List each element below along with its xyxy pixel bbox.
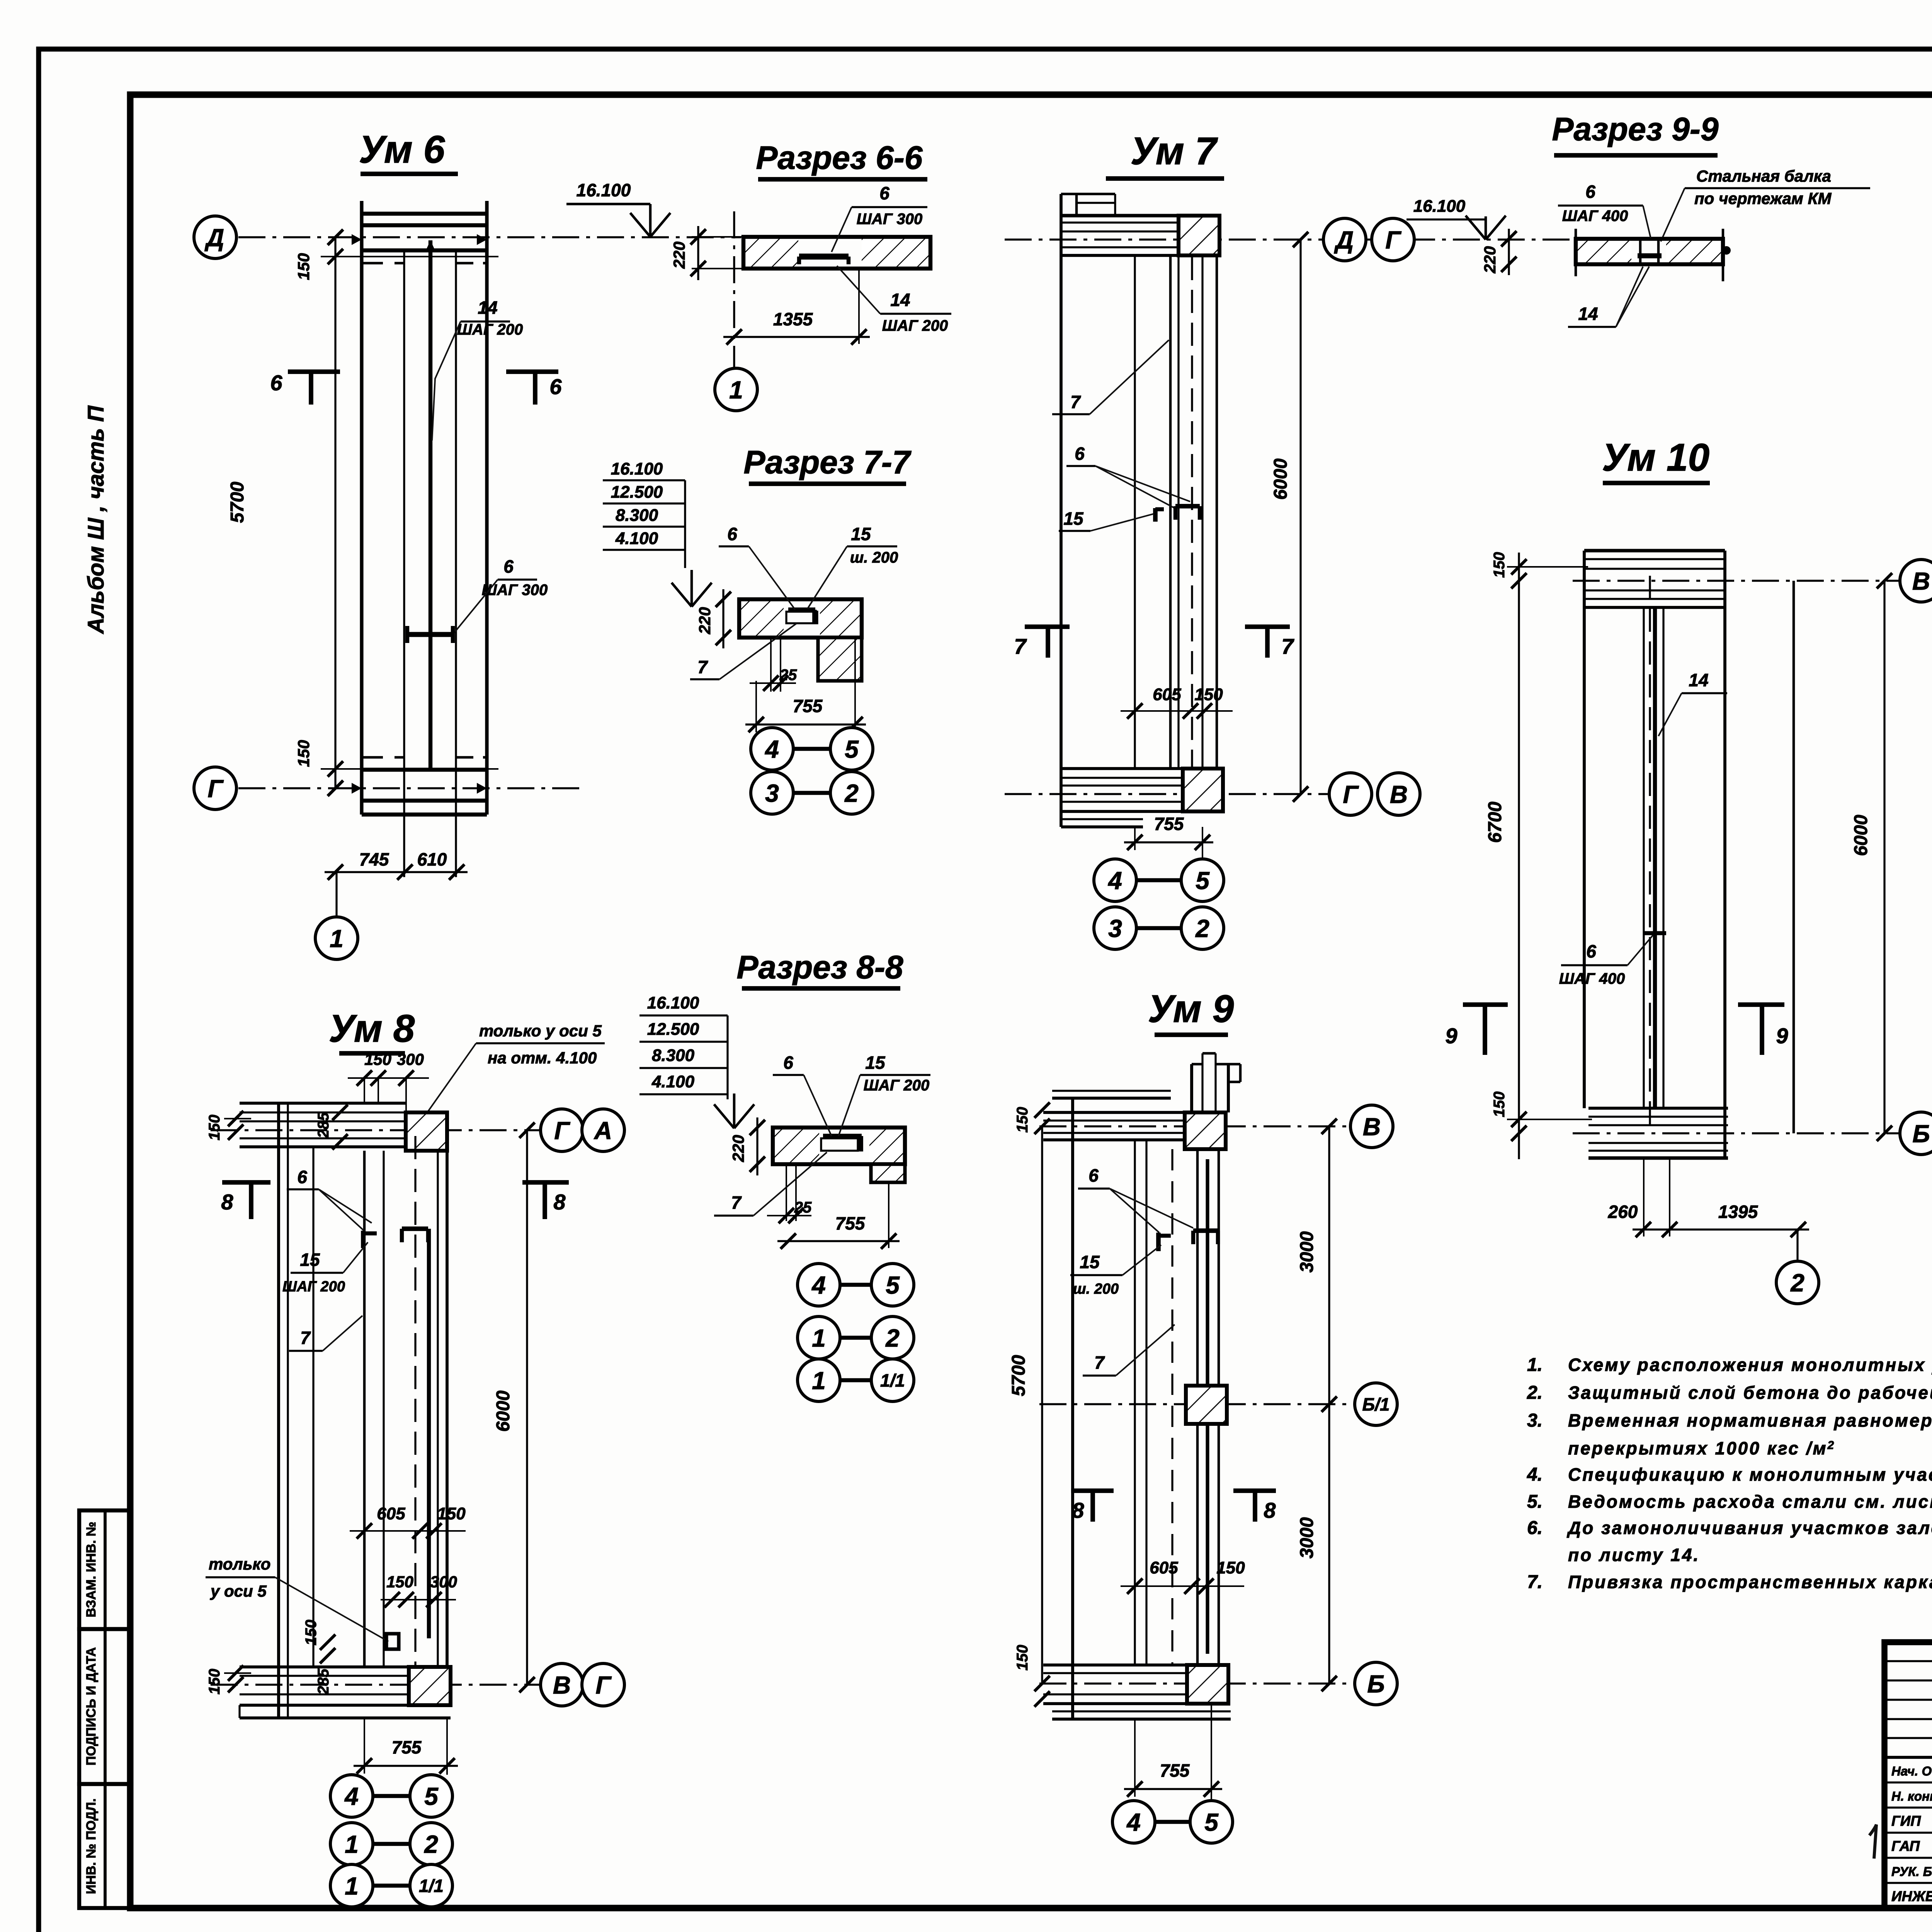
svg-text:6: 6 [503,556,514,577]
svg-text:6700: 6700 [1485,801,1505,843]
axis line Б of Ум 9 [1039,1682,1354,1684]
Ум 7 column strip edges [1169,255,1172,769]
axis circles В Г of Ум 8 [541,1663,583,1706]
dimension 1355 of Разрез 6-6 [858,269,860,344]
svg-text:7: 7 [1281,634,1294,658]
svg-text:150: 150 [294,740,313,767]
svg-text:6: 6 [783,1053,793,1073]
svg-text:ШАГ 200: ШАГ 200 [282,1279,345,1295]
svg-text:2: 2 [1790,1269,1804,1297]
svg-text:610: 610 [417,849,447,869]
Ум 6 bottom cap lines [362,756,404,759]
Ум 6 column right edge [485,201,488,815]
thickness dimension 220 of Разрез 6-6 [692,236,743,238]
axis circle Д [194,216,236,259]
svg-text:Б/1: Б/1 [1362,1395,1390,1415]
handwritten figure 1 left of title block [1869,1825,1876,1859]
svg-text:6: 6 [549,374,562,399]
svg-text:Альбом Ш , часть П: Альбом Ш , часть П [83,405,109,634]
bottom dimension 755 of Ум 9 [1134,1719,1136,1797]
thickness dimension 220 of Разрез 7-7 [722,589,724,648]
svg-text:3: 3 [1108,915,1122,942]
svg-text:5: 5 [886,1271,900,1299]
Ум 9 top column stub [1190,1064,1193,1112]
Ум 8 center dash line [414,1136,416,1677]
svg-text:6000: 6000 [1270,458,1291,500]
svg-text:4.100: 4.100 [615,529,658,548]
svg-text:4: 4 [344,1782,359,1810]
svg-text:605: 605 [1150,1558,1178,1577]
svg-text:Стальная балка: Стальная балка [1696,167,1831,185]
svg-text:755: 755 [835,1213,866,1233]
svg-text:Г: Г [1343,781,1359,808]
svg-text:285: 285 [315,1112,332,1138]
Ум 9 top hatched square [1185,1112,1226,1149]
slab of Разрез 8-8 [773,1129,819,1163]
svg-text:150: 150 [303,1620,320,1646]
detail circles 4-5 3-2 of Ум 7 [1202,842,1203,859]
left dimension 6700 of Ум 10 [1518,553,1520,1159]
svg-text:Разрез 8-8: Разрез 8-8 [736,949,903,985]
axis line Б of Ум 10 [1573,1132,1899,1134]
Ум 9 top band lines [1052,1090,1171,1092]
svg-text:Г: Г [1385,226,1401,254]
svg-text:ш. 200: ш. 200 [1073,1281,1119,1297]
section mark 8-8 left of Ум 9 [1071,1488,1114,1493]
bottom dimension 260 1395 of Ум 10 [1643,1158,1645,1236]
svg-text:15: 15 [1080,1252,1100,1272]
Ум 8 column verticals [363,1151,366,1667]
section mark 7-7 right [1245,624,1290,629]
Ум 9 wall left vertical [1071,1098,1074,1718]
svg-text:755: 755 [793,696,823,716]
svg-text:1: 1 [330,925,344,952]
svg-text:300: 300 [430,1573,457,1591]
section mark 6-6 right [506,369,558,374]
section mark 6-6 left [288,369,340,374]
detail circles of Ум 8 [446,1766,448,1775]
svg-text:16.100: 16.100 [647,993,699,1012]
svg-text:Защитный слой бетона до ра: Защитный слой бетона до рабочей арматуры… [1568,1383,1932,1403]
svg-text:16.100: 16.100 [1413,197,1466,216]
svg-text:6: 6 [879,183,889,203]
svg-text:В: В [1363,1113,1381,1141]
axis circle Г [194,767,236,810]
svg-text:755: 755 [1160,1760,1190,1781]
svg-text:755: 755 [1154,814,1184,834]
svg-text:Ум 6: Ум 6 [359,128,446,171]
bottom dimension 755 of Ум 8 [364,1718,365,1774]
svg-text:2.: 2. [1527,1383,1543,1403]
svg-text:Ум 8: Ум 8 [329,1007,415,1050]
axis circles Г А of Ум 8 [541,1109,583,1151]
detail circles 4 5 of Ум 9 [1211,1789,1212,1801]
bottom dimension 755 of Ум 7 [1134,827,1136,850]
svg-text:8: 8 [1072,1498,1084,1522]
svg-text:150: 150 [1491,552,1508,578]
150 label near axis Г [321,768,498,770]
section mark 7-7 left [1025,624,1070,629]
svg-text:605: 605 [1153,685,1181,704]
Ум 9 middle hatched square [1186,1386,1227,1424]
rebar detail of Разрез 8-8 [821,1138,858,1151]
axis circle В of Ум 10 [1900,560,1932,602]
Ум 8 rebar vertical [427,1229,431,1638]
Ум 7 bottom hatched square [1183,769,1223,811]
svg-text:2: 2 [1195,915,1209,942]
svg-text:7: 7 [300,1328,311,1348]
dimension 755 of Разрез 8-8 [777,1240,900,1242]
svg-text:220: 220 [696,607,714,634]
svg-text:5.: 5. [1527,1492,1543,1512]
svg-text:2: 2 [424,1830,438,1858]
svg-text:150: 150 [386,1573,413,1591]
svg-text:150: 150 [437,1504,466,1523]
detail circles of Разрез 8-8 [798,1264,840,1306]
svg-text:ВЗАМ. ИНВ. №: ВЗАМ. ИНВ. № [84,1522,99,1617]
title block frame [1884,1642,1932,1908]
dimension 5700 of Ум 9 [1041,1126,1043,1684]
left stamp box ИНВ.№ ПОДЛ. [79,1784,131,1908]
section mark 8-8 right of Ум 8 [522,1180,569,1185]
dimension 755 of Разрез 7-7 [745,723,866,725]
Ум 9 column strip verticals [1196,1149,1199,1665]
small insert square of Ум 8 [386,1634,399,1649]
slab of Разрез 9-9 [1577,240,1631,263]
svg-text:2: 2 [844,779,859,807]
section mark 9-9 left of Ум 10 [1463,1002,1508,1007]
svg-text:9: 9 [1776,1024,1788,1048]
offset line 150 below axis Д [321,256,498,257]
axis line В of Ум 10 [1573,580,1899,582]
svg-text:14: 14 [1578,304,1598,324]
svg-text:Г: Г [554,1117,570,1145]
svg-text:16.100: 16.100 [577,180,631,200]
svg-text:14: 14 [890,290,910,310]
svg-text:ИНЖЕНЕР: ИНЖЕНЕР [1891,1888,1932,1904]
Ум 7 strip center dash line [1191,224,1193,804]
svg-text:До замоноличивания участков: До замоноличивания участков заложить вып… [1566,1518,1932,1538]
svg-text:Б: Б [1912,1120,1930,1148]
svg-text:4.100: 4.100 [651,1072,695,1091]
Ум 10 rebar group [1643,607,1645,1108]
svg-text:ШАГ 400: ШАГ 400 [1559,970,1625,987]
vertical dimension 6000 right of Ум 7 [1299,240,1301,794]
svg-text:14: 14 [1689,670,1708,690]
svg-text:7: 7 [1070,392,1081,412]
svg-text:Г: Г [595,1671,612,1699]
svg-text:1/1: 1/1 [880,1371,905,1391]
dimension 3000 3000 of Ум 9 [1328,1126,1330,1684]
svg-text:4.: 4. [1527,1464,1543,1485]
left stamp box ВЗАМ.ИНВ.№ [79,1510,131,1629]
axis line Г of Ум 6 [238,787,580,789]
Ум 7 column strip inner lines [1177,255,1179,769]
section mark 8-8 left of Ум 8 [222,1180,270,1185]
Ум 9 bottom band lines [1043,1663,1187,1667]
svg-text:РУК. БР.: РУК. БР. [1891,1864,1932,1879]
svg-text:5700: 5700 [1009,1355,1029,1396]
thickness dimension 220 of Разрез 9-9 [1508,229,1510,275]
svg-text:14: 14 [478,298,497,318]
Ум 9 dashed inner vertical [1171,1149,1173,1665]
svg-text:8: 8 [221,1190,233,1214]
svg-text:300: 300 [397,1050,424,1068]
svg-text:3000: 3000 [1297,1517,1317,1558]
axis line Д of Ум 6 and Разрез 6-6 [238,236,741,238]
Ум 7 wall stub top [1075,194,1078,216]
vertical axis line 1 of Разрез 6-6 [733,211,735,376]
rebar bar in slab 6-6 [799,253,849,260]
Ум 10 top cap lines [1584,549,1725,552]
svg-text:260: 260 [1608,1202,1638,1222]
svg-text:3000: 3000 [1297,1231,1317,1272]
axis circle Б of Ум 10 [1900,1112,1932,1155]
axis circles Д Г top right of Ум 7 [1323,218,1366,261]
svg-text:285: 285 [315,1668,332,1695]
svg-text:6: 6 [297,1167,307,1187]
svg-text:12.500: 12.500 [647,1020,699,1039]
axis line Г-В bottom of Ум 7 [1005,793,1328,795]
axis circle В of Ум 9 [1350,1105,1393,1148]
svg-text:ШАГ 200: ШАГ 200 [864,1077,929,1094]
svg-text:5: 5 [1196,867,1210,895]
svg-text:ГАП: ГАП [1891,1838,1920,1854]
Ум 10 right wall line [1793,581,1795,1133]
svg-text:755: 755 [392,1737,422,1757]
svg-text:150: 150 [294,253,313,280]
vertical dimension 6000 of Ум 8 [526,1130,528,1685]
svg-text:7: 7 [731,1192,742,1213]
svg-text:1: 1 [729,376,743,404]
svg-text:Г: Г [207,775,224,803]
svg-text:6: 6 [1088,1165,1099,1185]
svg-text:220: 220 [1481,246,1499,274]
Ум 10 bottom cap lines [1588,1107,1728,1110]
svg-text:ШАГ 300: ШАГ 300 [857,211,922,228]
Ум 6 axis arrowheads [352,234,362,245]
svg-text:Разрез 6-6: Разрез 6-6 [756,139,923,176]
svg-text:ГИП: ГИП [1891,1813,1921,1829]
Ум 6 rebar 14 vertical [429,240,432,769]
vertical dimension 5700 of Ум 6 [334,237,336,788]
rebar detail of Разрез 7-7 [786,612,817,623]
svg-text:15: 15 [300,1250,320,1270]
svg-text:6.: 6. [1527,1518,1543,1538]
svg-text:ПОДПИСЬ И ДАТА: ПОДПИСЬ И ДАТА [84,1647,99,1765]
svg-text:Д: Д [204,224,224,252]
svg-text:Схему расположения монолитн: Схему расположения монолитных участков с… [1568,1355,1932,1375]
slab of Разрез 6-6 [743,238,798,267]
svg-text:8: 8 [553,1190,566,1214]
Ум 7 top hatched square [1179,216,1219,255]
svg-text:605: 605 [377,1504,405,1523]
Ум 9 bottom hatched square [1187,1665,1228,1704]
svg-text:Спецификацию к монолитным: Спецификацию к монолитным участкам см. л… [1568,1464,1932,1485]
title block signature table grid [1884,1660,1932,1662]
svg-text:150: 150 [1194,685,1223,704]
svg-text:Н. контр.: Н. контр. [1891,1789,1932,1803]
svg-text:по листу 14.: по листу 14. [1568,1545,1700,1565]
svg-text:4: 4 [811,1271,826,1299]
svg-text:8.300: 8.300 [652,1046,695,1065]
svg-text:только у оси 5: только у оси 5 [479,1022,602,1040]
svg-text:4: 4 [1107,867,1122,895]
slab step of Разрез 8-8 [871,1164,905,1182]
steel beam gap in slab 9-9 [1639,239,1642,264]
axis circles Г В bottom right of Ум 7 [1329,773,1372,815]
svg-text:1: 1 [345,1872,359,1900]
Ум 8 bottom cap lines [240,1665,409,1668]
svg-text:ИНВ. № ПОДЛ.: ИНВ. № ПОДЛ. [84,1798,99,1894]
svg-text:ШАГ 300: ШАГ 300 [482,582,548,599]
svg-text:Разрез 9-9: Разрез 9-9 [1552,111,1719,147]
svg-text:1: 1 [812,1367,826,1395]
svg-text:150: 150 [1014,1107,1031,1133]
rebar hook symbols of Ум 9 [1156,1233,1161,1251]
svg-text:1: 1 [812,1324,826,1352]
Ум 7 top cap lines [1061,214,1179,217]
svg-text:1395: 1395 [1718,1202,1759,1222]
axis line Г-А top of Ум 8 [211,1129,539,1131]
svg-text:9: 9 [1445,1024,1457,1048]
axis line В-Г bottom of Ум 8 [211,1684,539,1685]
svg-text:Б: Б [1367,1670,1384,1698]
rebar hook symbols of Ум 8 [361,1231,366,1248]
svg-text:150: 150 [1014,1645,1031,1671]
Ум 10 column left edge [1583,551,1586,1108]
svg-text:150: 150 [206,1115,223,1141]
slab of Разрез 7-7 [739,601,784,636]
svg-text:Ум 9: Ум 9 [1148,987,1234,1031]
svg-text:220: 220 [729,1135,747,1162]
svg-text:6000: 6000 [1851,815,1871,856]
svg-text:В: В [1912,567,1930,595]
svg-text:150: 150 [206,1669,223,1695]
axis line В of Ум 9 [1039,1125,1349,1127]
svg-text:В: В [1390,781,1408,808]
svg-text:6: 6 [1075,444,1085,464]
svg-text:5700: 5700 [227,481,248,523]
svg-text:Ум 7: Ум 7 [1131,129,1218,173]
svg-text:Нач. ОТП: Нач. ОТП [1891,1764,1932,1778]
svg-text:15: 15 [1063,509,1084,529]
svg-text:ШАГ 400: ШАГ 400 [1562,207,1628,224]
svg-text:1355: 1355 [773,309,813,329]
axis circle 1 of Разрез 6-6 [715,368,757,411]
svg-text:В: В [553,1671,571,1699]
svg-text:3: 3 [765,779,779,807]
Ум 8 wall verticals [277,1103,280,1718]
svg-text:1: 1 [345,1830,359,1858]
svg-text:15: 15 [851,524,871,544]
svg-text:4: 4 [1126,1808,1141,1836]
svg-text:Ум 10: Ум 10 [1602,436,1709,479]
svg-text:7: 7 [1094,1352,1105,1372]
svg-text:3.: 3. [1527,1410,1543,1431]
Ум 6 column left edge [360,201,363,815]
svg-text:1.: 1. [1527,1355,1543,1375]
axis circle 1 below Ум 6 [335,872,337,917]
svg-text:ШАГ 200: ШАГ 200 [882,317,948,334]
axis circle 2 below Ум 10 [1796,1230,1798,1261]
Ум 9 inner wall verticals [1134,1140,1136,1665]
right dimension 6000 of Ум 10 [1883,581,1885,1133]
Ум 6 top cap lines [362,212,487,216]
svg-text:Временная нормативная равном: Временная нормативная равномерно распред… [1568,1410,1932,1430]
section mark 8-8 right of Ум 9 [1233,1488,1276,1493]
svg-text:Д: Д [1334,226,1354,254]
Ум 8 bottom hatched square [409,1667,451,1705]
svg-text:6: 6 [1586,941,1596,961]
axis circle Б/1 of Ум 9 [1355,1383,1397,1425]
Ум 7 wall left edge [1060,194,1063,827]
svg-text:только: только [209,1555,270,1573]
Ум 8 top cap lines [240,1102,406,1105]
Ум 7 bottom cap lines [1061,767,1183,770]
svg-text:Привязка пространственных ка: Привязка пространственных каркасов дана … [1568,1572,1932,1592]
thickness dimension 220 of Разрез 8-8 [756,1117,758,1175]
svg-text:8.300: 8.300 [616,506,658,525]
svg-text:6: 6 [1585,182,1595,202]
svg-text:5: 5 [845,735,859,763]
svg-text:745: 745 [359,849,389,869]
svg-text:по чертежам КМ: по чертежам КМ [1694,189,1832,207]
svg-text:1/1: 1/1 [419,1876,444,1896]
svg-text:15: 15 [865,1053,886,1073]
svg-text:Ведомость расхода стали см.: Ведомость расхода стали см. лист 18. [1568,1492,1932,1512]
svg-text:5: 5 [424,1782,439,1810]
svg-text:16.100: 16.100 [611,459,663,478]
Ум 7 inner wall line [1134,255,1136,769]
svg-text:7: 7 [697,657,708,677]
svg-text:220: 220 [670,241,688,269]
slab step of Разрез 7-7 [818,638,862,681]
svg-text:Разрез 7-7: Разрез 7-7 [743,444,912,480]
rebar hook symbols of Ум 7 [1175,504,1200,509]
svg-text:на отм. 4.100: на отм. 4.100 [488,1049,597,1067]
bottom dimension 745 / 610 of Ум 6 [325,871,468,873]
svg-text:5: 5 [1204,1808,1219,1836]
svg-text:ш. 200: ш. 200 [850,549,898,566]
axis line Б/1 of Ум 9 [1039,1403,1354,1405]
svg-text:А: А [594,1117,612,1145]
svg-text:8: 8 [1264,1498,1276,1522]
svg-text:7.: 7. [1527,1572,1543,1592]
svg-text:перекрытиях 1000 кгс /м2: перекрытиях 1000 кгс /м2 [1568,1438,1835,1458]
svg-text:150: 150 [364,1050,391,1068]
svg-text:6: 6 [727,524,737,544]
svg-text:12.500: 12.500 [611,483,663,502]
svg-text:ШАГ 200: ШАГ 200 [457,321,523,338]
axis line Д-Г through Ум 7 and Разрез 9-9 [1005,238,1575,240]
svg-text:150: 150 [1491,1092,1508,1117]
svg-text:4: 4 [764,735,779,763]
spacer bar symbol in Ум 6 [407,632,453,637]
svg-text:у оси 5: у оси 5 [210,1582,267,1600]
detail circles 4-5 / 3-2 of Разрез 7-7 [854,724,856,728]
svg-text:150: 150 [1216,1558,1245,1577]
svg-text:6: 6 [270,371,282,395]
axis circle Б of Ум 9 [1355,1662,1397,1705]
svg-text:6000: 6000 [493,1390,514,1432]
svg-text:2: 2 [885,1324,900,1352]
svg-text:7: 7 [1014,634,1027,658]
Ум 10 column right edge [1723,551,1726,1158]
section mark 9-9 right of Ум 10 [1738,1002,1784,1007]
left stamp box ПОДПИСЬ И ДАТА [79,1629,131,1784]
Ум 6 column inner lines [403,250,405,877]
